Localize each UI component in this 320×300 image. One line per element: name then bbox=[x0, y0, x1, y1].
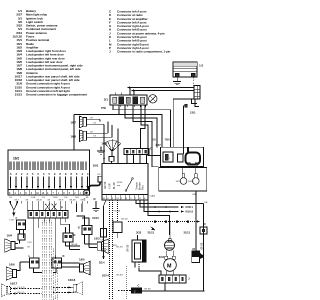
svg-text:31/10: 31/10 bbox=[92, 216, 99, 220]
wires motor bbox=[166, 251, 174, 276]
continuation labels bbox=[99, 262, 109, 278]
crossed pairs bbox=[45, 204, 57, 211]
cable bundle dotted bbox=[43, 221, 58, 300]
ground battery negative bbox=[173, 77, 181, 85]
svg-text:GR-SB: GR-SB bbox=[202, 242, 204, 250]
ground antenna bbox=[97, 147, 105, 155]
svg-text:Y-GR: Y-GR bbox=[110, 183, 112, 189]
svg-text:16/8: 16/8 bbox=[70, 134, 76, 138]
svg-text:31/9: 31/9 bbox=[101, 250, 106, 253]
svg-text:31/13: 31/13 bbox=[184, 230, 191, 234]
wire feed from terminal bbox=[174, 99, 184, 154]
radio pow ant switch bbox=[117, 178, 133, 192]
svg-text:D: D bbox=[94, 197, 96, 201]
svg-text:Y-R: Y-R bbox=[9, 197, 13, 199]
wires below amp strip bbox=[11, 201, 88, 204]
labels GR-SB bottom middle bbox=[116, 247, 123, 277]
svg-text:SB: SB bbox=[153, 139, 157, 142]
svg-text:16/2: 16/2 bbox=[13, 156, 19, 160]
loudspeaker 16/16 bbox=[188, 174, 199, 185]
loudspeaker 16/8 bbox=[70, 130, 112, 142]
wires into P bbox=[27, 204, 66, 211]
antenna mast connector M bbox=[192, 247, 205, 263]
svg-text:GR 0.75: GR 0.75 bbox=[17, 292, 25, 294]
svg-text:Connector in radio compartment: Connector in radio compartment, 1-pin bbox=[117, 50, 171, 54]
wire bus X bbox=[131, 89, 194, 94]
loudspeaker 16/7 bbox=[70, 116, 104, 128]
power antenna motor 6/34 bbox=[159, 255, 177, 272]
wire run SB bbox=[125, 106, 157, 148]
wire labels near 16/4 bbox=[27, 242, 32, 249]
wire labels below amp strip bbox=[9, 197, 89, 201]
svg-text:GR-SB: GR-SB bbox=[69, 199, 76, 201]
connector P bbox=[28, 206, 68, 219]
connector near 16/4 bbox=[18, 234, 25, 244]
wires J bottom bbox=[142, 283, 205, 291]
svg-text:16/18: 16/18 bbox=[68, 278, 76, 282]
amplifier internal wires with arrows bbox=[11, 177, 89, 190]
lamp at ignition bbox=[149, 95, 157, 103]
connector D at radio bbox=[124, 146, 152, 163]
wire right edge down bbox=[196, 191, 204, 291]
battery 1/1 bbox=[173, 62, 204, 77]
svg-text:C/A-B: C/A-B bbox=[150, 195, 156, 198]
svg-text:2/37: 2/37 bbox=[156, 143, 162, 147]
connector L bbox=[17, 254, 43, 273]
relay small component bbox=[163, 152, 173, 162]
dotted run to ground 31/13 bbox=[128, 220, 200, 238]
wires P/amp to G bbox=[77, 204, 90, 221]
combined instrument box bbox=[159, 168, 207, 192]
amplifier 16/2 bbox=[8, 150, 90, 190]
svg-text:16/4: 16/4 bbox=[7, 234, 13, 238]
wire speaker runs joining bbox=[74, 114, 119, 116]
svg-text:Y-GR: Y-GR bbox=[9, 220, 14, 222]
wires G to speaker 16/3 bbox=[66, 235, 98, 250]
svg-text:GR-SB: GR-SB bbox=[144, 288, 151, 290]
svg-text:C: C bbox=[138, 283, 140, 287]
svg-text:Y-BN: Y-BN bbox=[53, 197, 58, 199]
svg-text:7/50: 7/50 bbox=[101, 106, 107, 110]
svg-text:Y-SB: Y-SB bbox=[31, 197, 36, 199]
coax cable thick bbox=[83, 182, 100, 202]
svg-text:C/B: C/B bbox=[192, 194, 196, 196]
legend left column bbox=[13, 9, 88, 97]
ground connection 31/13 bbox=[148, 231, 175, 251]
svg-text:31/13: 31/13 bbox=[15, 93, 23, 97]
svg-text:Y-R 0.75: Y-R 0.75 bbox=[17, 287, 26, 289]
svg-text:GR-Y: GR-Y bbox=[14, 199, 20, 201]
dotted wire bottom middle bbox=[125, 266, 127, 300]
svg-text:M: M bbox=[167, 264, 172, 270]
svg-text:GR-SB: GR-SB bbox=[114, 211, 121, 213]
ground 31/10 bbox=[92, 201, 100, 220]
loudspeaker 16/3 bbox=[94, 237, 108, 254]
svg-text:D: D bbox=[150, 146, 152, 150]
svg-text:BL-SB: BL-SB bbox=[114, 182, 116, 189]
svg-text:1/1: 1/1 bbox=[199, 64, 204, 68]
wires P strip down bbox=[34, 218, 70, 258]
svg-text:GR-SB: GR-SB bbox=[128, 244, 130, 252]
loudspeaker 16/15 bbox=[176, 174, 187, 185]
radio connector strip bbox=[94, 195, 156, 201]
svg-text:15/1: 15/1 bbox=[190, 110, 196, 114]
connector J 4-pin bbox=[159, 275, 190, 283]
connector H bbox=[63, 224, 76, 250]
connector mid relay box bbox=[178, 154, 184, 162]
radio 16/1 bbox=[102, 164, 148, 195]
wire bus 30 bbox=[127, 86, 194, 94]
connector C at antenna lead bbox=[118, 283, 151, 293]
wire run to amplifier bbox=[119, 106, 162, 148]
svg-text:GR-SB: GR-SB bbox=[105, 181, 107, 189]
svg-text:16/6: 16/6 bbox=[9, 263, 15, 267]
svg-text:16/17: 16/17 bbox=[10, 281, 18, 285]
arrows and continuation labels bbox=[154, 201, 208, 214]
wires radio strip down left bbox=[102, 200, 106, 260]
wire speaker joins bbox=[100, 119, 112, 137]
svg-text:6/34: 6/34 bbox=[159, 255, 165, 259]
svg-text:3/2:4: 3/2:4 bbox=[99, 262, 105, 265]
amplifier digits row bbox=[10, 173, 89, 176]
amplifier pin hatch bbox=[10, 162, 87, 171]
svg-text:16/1: 16/1 bbox=[93, 163, 99, 167]
svg-text:GR-SB: GR-SB bbox=[71, 244, 78, 246]
svg-text:GR-R: GR-R bbox=[58, 199, 64, 201]
wire radio top pins bbox=[103, 125, 118, 164]
svg-text:GR-SB: GR-SB bbox=[116, 275, 123, 277]
wire battery plus (dashed) bbox=[192, 77, 194, 86]
svg-text:GR-SB: GR-SB bbox=[116, 247, 123, 249]
speaker wire labels bbox=[90, 118, 97, 138]
relay capsule thick bbox=[186, 147, 201, 165]
svg-text:8/1A:5: 8/1A:5 bbox=[186, 211, 194, 214]
connector G bbox=[78, 220, 92, 235]
svg-text:Y-W: Y-W bbox=[64, 197, 68, 199]
connector D/1 bbox=[97, 174, 102, 182]
wire vertical to amp top bbox=[73, 115, 75, 151]
wire run to instrument bbox=[133, 106, 159, 167]
amplifier connector strip E bbox=[8, 190, 90, 196]
svg-text:8/1B:1: 8/1B:1 bbox=[186, 206, 194, 209]
svg-text:ant.: ant. bbox=[117, 184, 121, 187]
svg-text:3/1: 3/1 bbox=[104, 98, 109, 102]
svg-text:GR-SB: GR-SB bbox=[121, 219, 128, 221]
svg-text:GR-W: GR-W bbox=[36, 199, 42, 201]
svg-text:31/13: 31/13 bbox=[148, 231, 155, 235]
wire labels bbox=[71, 244, 118, 247]
legend right column bbox=[109, 10, 171, 54]
svg-text:16/7: 16/7 bbox=[70, 121, 76, 125]
positive terminal 15/1 bbox=[190, 86, 200, 115]
svg-text:Files: Files bbox=[143, 184, 145, 190]
switch power antenna 3/32 bbox=[128, 231, 162, 275]
wire run to relay left bbox=[141, 106, 161, 156]
wires radio strip right bends bbox=[136, 200, 204, 235]
svg-text:2/37:4: 2/37:4 bbox=[102, 275, 109, 278]
twisted pair arrow bbox=[9, 201, 18, 222]
connector F bbox=[16, 217, 26, 239]
wires relay to instrument bbox=[182, 167, 195, 174]
connector J 1-pin (radio compartment) bbox=[109, 157, 114, 164]
svg-text:P: P bbox=[61, 206, 63, 210]
svg-text:G: G bbox=[74, 233, 76, 237]
loudspeaker 16/17 dashed bbox=[1, 281, 42, 296]
svg-text:7/50: 7/50 bbox=[165, 137, 171, 141]
svg-text:Ground connection in luggage c: Ground connection in luggage compartment bbox=[26, 93, 87, 97]
connector C right bbox=[200, 222, 207, 234]
labels GR-SB diagonal bbox=[114, 211, 129, 221]
connector K bbox=[52, 254, 80, 273]
svg-text:3/32: 3/32 bbox=[136, 231, 142, 235]
svg-text:Trenner: Trenner bbox=[136, 182, 139, 190]
loudspeaker 16/4 bbox=[5, 234, 24, 253]
svg-text:E: E bbox=[84, 198, 86, 202]
wire labels 16/17 bbox=[17, 287, 26, 294]
wire terminal bottom bbox=[173, 98, 197, 100]
wire run to connector D bbox=[141, 106, 146, 149]
svg-text:16/3: 16/3 bbox=[94, 237, 100, 241]
inline connector 5 bbox=[112, 219, 122, 239]
antenna 16/9 bbox=[101, 140, 121, 157]
svg-text:Breaker: Breaker bbox=[139, 182, 142, 190]
svg-text:Y-GR: Y-GR bbox=[27, 242, 32, 244]
terminal pin squares bbox=[184, 99, 200, 107]
svg-text:L: L bbox=[29, 254, 31, 258]
radio pin labels rotated bbox=[105, 181, 145, 190]
svg-text:Y-G: Y-G bbox=[42, 197, 46, 199]
relay 2/37 box bbox=[156, 143, 204, 167]
svg-text:C: C bbox=[204, 222, 206, 226]
arrow to 31/13 label bbox=[151, 227, 156, 231]
loudspeaker 16/5 bbox=[79, 258, 90, 275]
wire run 7/50 bbox=[113, 106, 171, 148]
loudspeaker 16/6 bbox=[6, 263, 16, 281]
inline connector on wire bbox=[101, 200, 118, 300]
svg-text:16/5: 16/5 bbox=[79, 258, 85, 262]
loudspeaker 16/18 dashed bbox=[53, 278, 82, 295]
ignition lock 3/1 bbox=[104, 93, 147, 108]
